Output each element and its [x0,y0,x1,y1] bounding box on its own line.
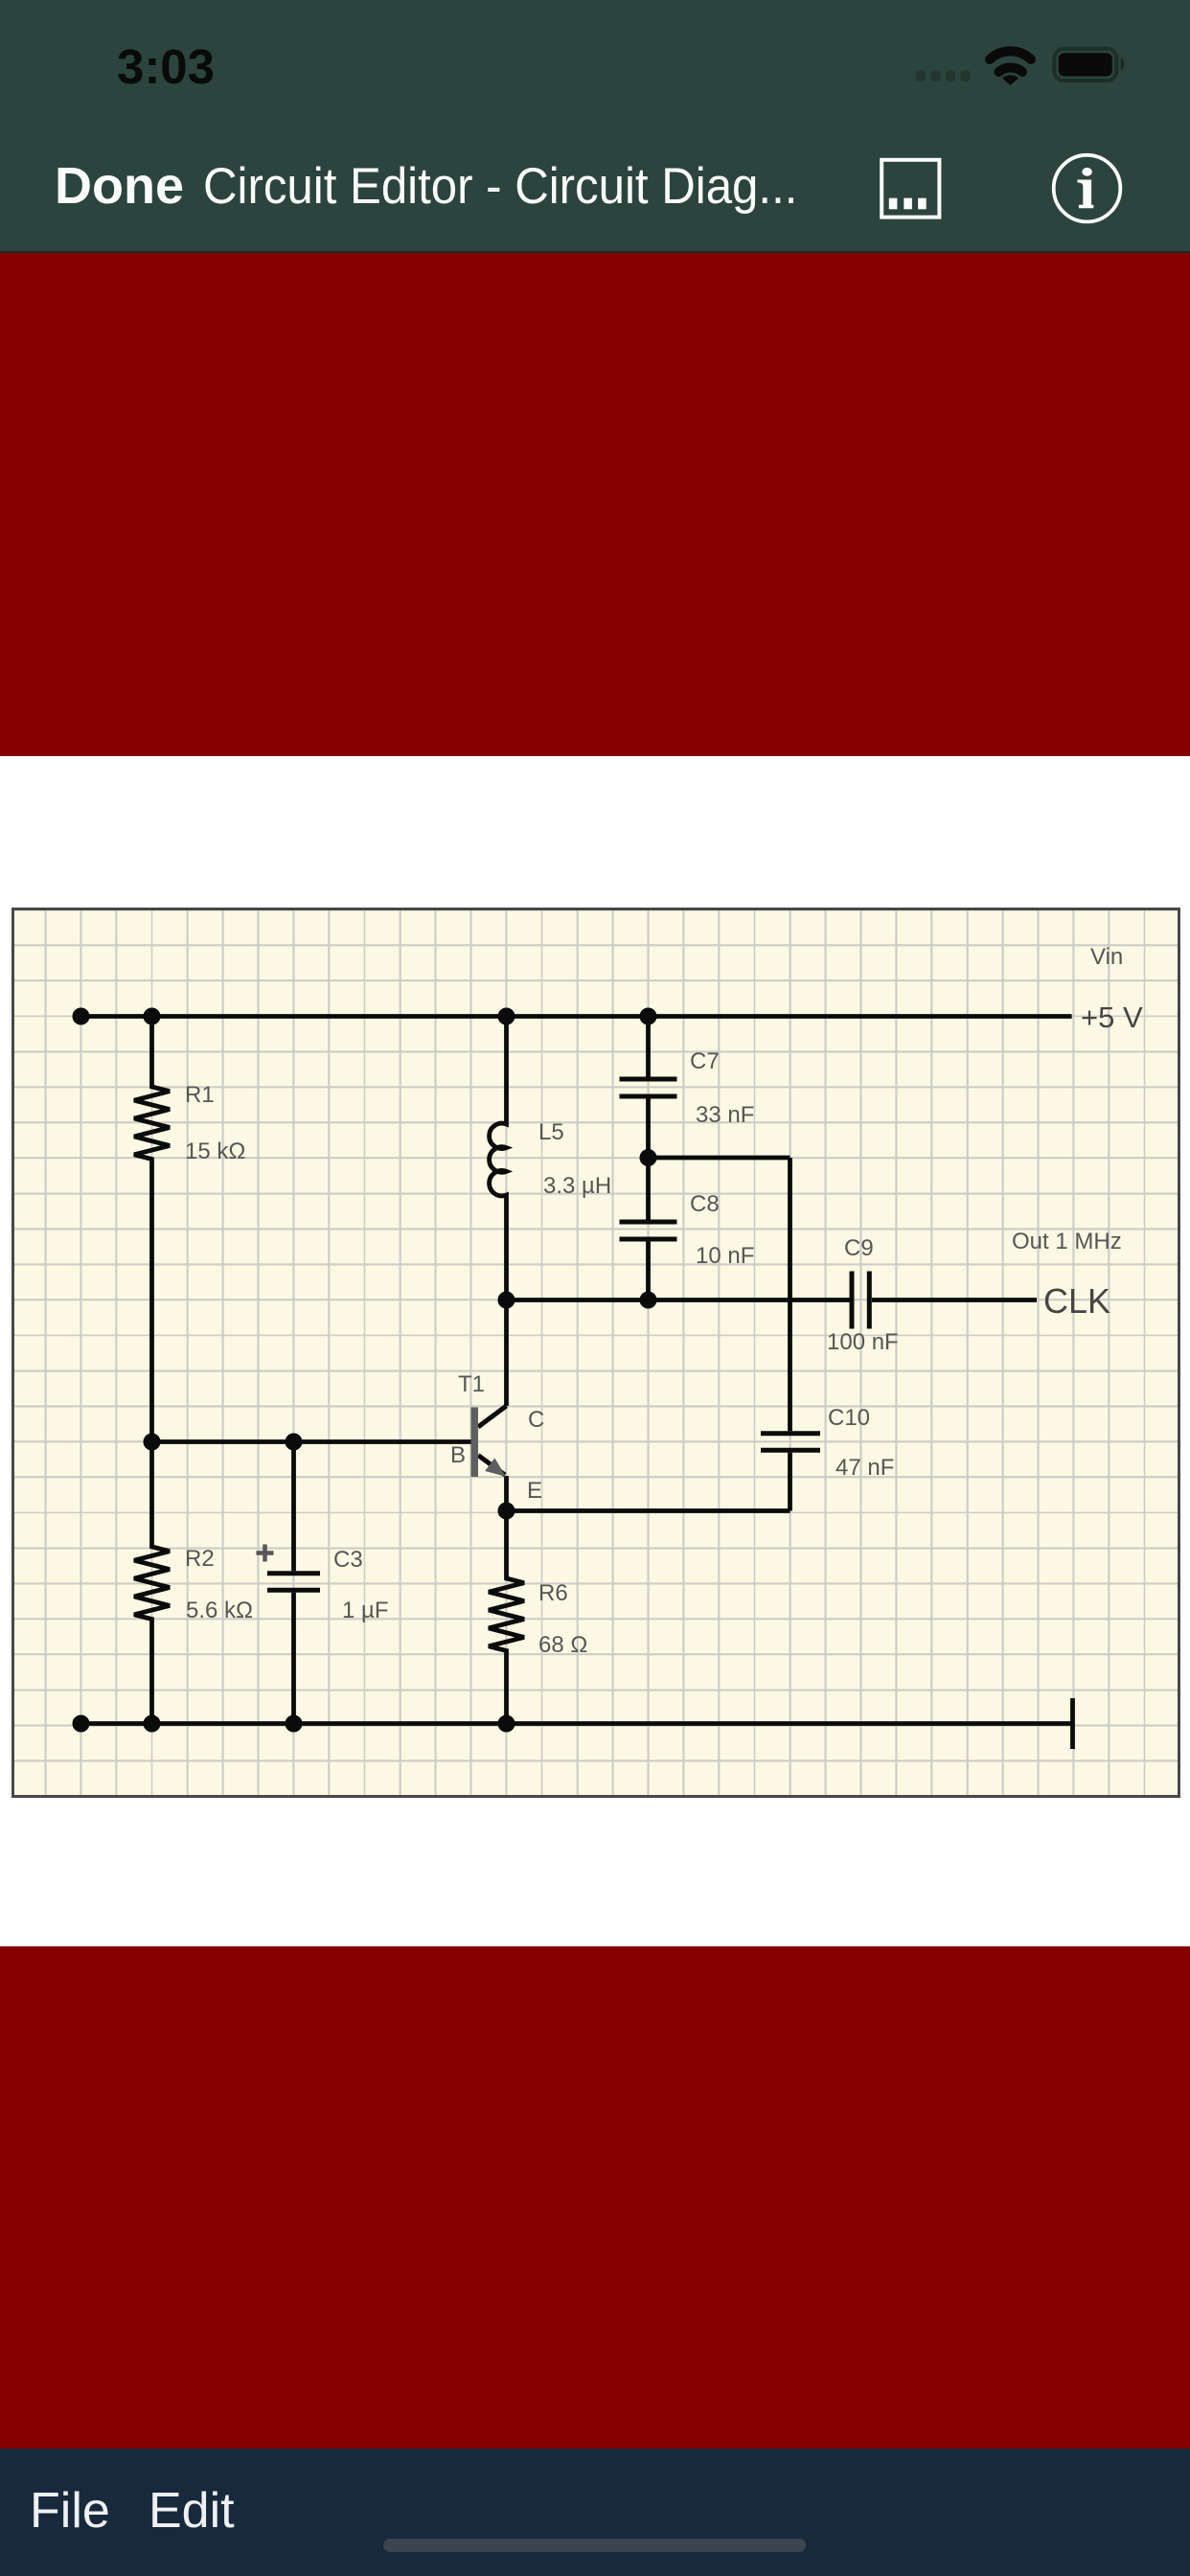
svg-text:33 nF: 33 nF [696,1102,754,1128]
svg-text:1 µF: 1 µF [342,1598,389,1623]
svg-text:L5: L5 [538,1119,564,1145]
svg-text:B: B [450,1442,466,1468]
svg-text:C: C [528,1407,544,1433]
svg-text:15 kΩ: 15 kΩ [185,1138,245,1164]
svg-text:47 nF: 47 nF [835,1455,894,1481]
svg-text:CLK: CLK [1043,1281,1110,1321]
svg-text:10 nF: 10 nF [696,1243,754,1269]
svg-text:R6: R6 [538,1580,568,1606]
svg-text:Out 1 MHz: Out 1 MHz [1012,1229,1122,1254]
svg-text:C9: C9 [844,1235,874,1261]
svg-text:C7: C7 [690,1048,720,1074]
svg-text:C3: C3 [333,1547,363,1573]
svg-text:Vin: Vin [1090,944,1123,970]
svg-text:T1: T1 [458,1371,485,1397]
svg-text:100 nF: 100 nF [827,1329,899,1355]
svg-text:5.6 kΩ: 5.6 kΩ [186,1598,253,1623]
svg-text:3.3 µH: 3.3 µH [543,1173,611,1199]
svg-text:R2: R2 [185,1546,215,1572]
svg-text:C10: C10 [828,1405,870,1431]
svg-text:+5 V: +5 V [1081,1000,1143,1034]
svg-text:E: E [527,1478,542,1504]
svg-text:68 Ω: 68 Ω [538,1632,587,1658]
svg-text:C8: C8 [690,1191,720,1217]
svg-text:R1: R1 [185,1082,215,1108]
